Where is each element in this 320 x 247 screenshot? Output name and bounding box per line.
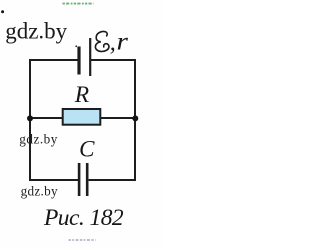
svg-text:r: r xyxy=(117,27,129,55)
svg-text:Рис. 182: Рис. 182 xyxy=(43,205,124,231)
svg-text:gdz.by: gdz.by xyxy=(5,19,67,44)
svg-text:gdz.by: gdz.by xyxy=(19,131,58,146)
svg-text:,: , xyxy=(110,30,116,56)
svg-text:R: R xyxy=(74,82,89,108)
svg-text:gdz.by: gdz.by xyxy=(21,184,58,199)
svg-text:C: C xyxy=(79,137,95,162)
